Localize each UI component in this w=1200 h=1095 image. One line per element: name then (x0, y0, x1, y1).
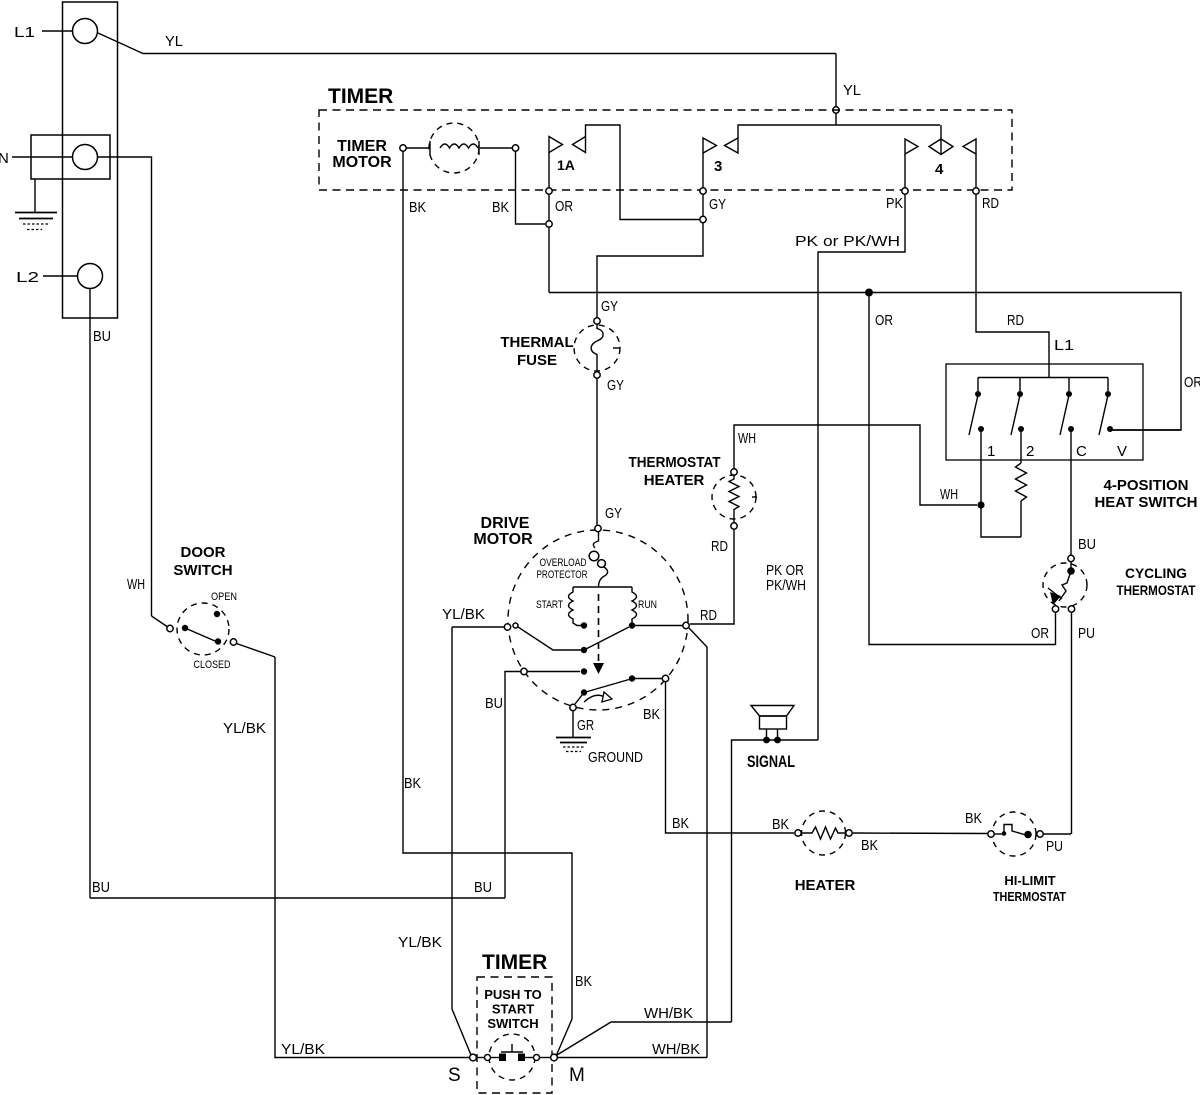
svg-text:OR: OR (875, 312, 893, 329)
terminal L2 (16, 264, 103, 289)
svg-text:OPEN: OPEN (211, 591, 237, 603)
terminal L1 (14, 19, 98, 44)
svg-text:YL/BK: YL/BK (398, 934, 442, 951)
node WH junction on wire 1 (977, 501, 984, 508)
svg-text:PK or PK/WH: PK or PK/WH (795, 233, 900, 250)
wire WH/BK from M horizontal (558, 1041, 707, 1058)
label PK OR PK/WH (right of motor) (766, 562, 806, 594)
terminal block TB1 (63, 2, 118, 318)
svg-text:RD: RD (711, 538, 728, 555)
svg-text:GR: GR (577, 717, 594, 734)
hi-limit thermostat (988, 812, 1071, 904)
timer box (dashed) (319, 85, 1012, 190)
svg-text:HEATER: HEATER (644, 472, 705, 489)
wire WH from N to door switch (98, 157, 152, 616)
node YL at timer border (833, 107, 839, 113)
wire BU from L2 down (90, 289, 111, 899)
wire OR main horizontal to heat switch V (549, 293, 1200, 431)
wire YL/BK door switch to push-to-start S (223, 657, 469, 1058)
svg-text:THERMAL: THERMAL (500, 334, 573, 351)
svg-text:DRIVE: DRIVE (481, 515, 530, 532)
svg-text:BU: BU (93, 328, 111, 345)
svg-text:S: S (448, 1065, 461, 1086)
node OR at timer border (546, 188, 552, 194)
svg-text:BK: BK (772, 816, 789, 833)
svg-text:BK: BK (861, 837, 878, 854)
node PK at timer border (902, 188, 908, 194)
svg-text:WH: WH (738, 430, 756, 447)
svg-text:V: V (1117, 443, 1127, 460)
svg-text:OR: OR (1184, 374, 1200, 391)
svg-text:YL/BK: YL/BK (223, 720, 266, 737)
svg-text:THERMOSTAT: THERMOSTAT (629, 454, 721, 471)
svg-text:WH: WH (127, 576, 145, 593)
svg-text:GROUND: GROUND (588, 749, 643, 766)
drive motor M1 (473, 515, 688, 710)
svg-text:HI-LIMIT: HI-LIMIT (1004, 873, 1055, 888)
svg-text:L1: L1 (14, 24, 35, 41)
wire BK heater to hi-limit (853, 810, 988, 834)
heat switch contact V (1099, 378, 1127, 461)
ground (motor) (556, 711, 643, 766)
motor winding bus bar (573, 586, 632, 588)
cycling thermostat (1043, 555, 1196, 612)
svg-text:TIMER: TIMER (328, 85, 393, 108)
wire PK from contact 4 down to signal (795, 154, 905, 740)
svg-text:WH: WH (940, 486, 958, 503)
wire GY from fuse to drive motor (597, 379, 622, 526)
svg-text:START: START (536, 599, 563, 611)
push-to-start switch (448, 1034, 585, 1086)
svg-text:1A: 1A (557, 157, 575, 173)
svg-text:PK: PK (886, 195, 903, 212)
svg-text:SWITCH: SWITCH (173, 562, 232, 579)
svg-text:WH/BK: WH/BK (644, 1005, 693, 1022)
svg-text:BK: BK (965, 810, 982, 827)
svg-text:CLOSED: CLOSED (194, 659, 231, 671)
svg-text:RD: RD (982, 195, 999, 212)
svg-text:THERMOSTAT: THERMOSTAT (1117, 582, 1196, 598)
node GY at motor top (595, 525, 601, 531)
svg-text:BK: BK (409, 199, 426, 216)
wire BU from motor (485, 668, 587, 898)
svg-text:PUSH TO: PUSH TO (484, 987, 542, 1002)
contact 1A (549, 137, 586, 174)
node RD at timer border (973, 188, 979, 194)
svg-text:L2: L2 (16, 269, 39, 286)
svg-text:WH/BK: WH/BK (652, 1041, 700, 1058)
svg-text:PU: PU (1046, 838, 1063, 855)
svg-text:SWITCH: SWITCH (487, 1016, 538, 1031)
signal buzzer (747, 706, 795, 772)
svg-text:SIGNAL: SIGNAL (747, 752, 795, 771)
svg-text:YL/BK: YL/BK (281, 1041, 325, 1058)
svg-text:C: C (1076, 443, 1087, 460)
contact 4 (905, 125, 976, 178)
wire heat switch 1 down (981, 429, 1021, 537)
svg-text:OR: OR (555, 198, 573, 215)
svg-text:BU: BU (92, 879, 110, 896)
heat switch contact C (1060, 378, 1087, 461)
wire WH from thermostat heater to heat switch (734, 425, 977, 505)
svg-text:RD: RD (1007, 312, 1024, 329)
timer (push-to-start) box (477, 951, 552, 1093)
svg-text:HEATER: HEATER (795, 877, 856, 894)
svg-text:GY: GY (607, 377, 624, 394)
svg-text:GY: GY (601, 298, 618, 315)
run winding (632, 587, 657, 626)
svg-text:PROTECTOR: PROTECTOR (537, 569, 588, 581)
wire OR from contact 1A down (549, 153, 573, 293)
svg-text:MOTOR: MOTOR (473, 531, 533, 548)
svg-text:BU: BU (485, 695, 503, 712)
wire RD from contact 4 to heat switch L1 (976, 154, 1074, 377)
terminal N (0, 135, 110, 179)
wire GR to ground (570, 695, 594, 734)
svg-text:3: 3 (714, 158, 722, 175)
thermal fuse F1 (500, 318, 624, 394)
svg-text:4-POSITION: 4-POSITION (1103, 477, 1188, 494)
centrifugal switch blade (lower) (581, 675, 669, 695)
svg-text:BU: BU (1078, 536, 1096, 553)
wire RD thermostat heater to motor RUN (690, 530, 734, 625)
wire YL/BK motor to push-to-start S (398, 627, 471, 1055)
svg-text:RUN: RUN (638, 599, 657, 611)
overload protector (537, 532, 608, 587)
node GY at timer border (700, 188, 706, 194)
svg-text:PU: PU (1078, 625, 1095, 642)
wire RD run winding to heater thermostat (635, 622, 689, 628)
node OR junction dot (865, 289, 873, 297)
wire OR from junction to cycling thermostat (869, 293, 1056, 645)
svg-text:CYCLING: CYCLING (1125, 565, 1187, 581)
svg-text:BU: BU (474, 879, 492, 896)
svg-text:OVERLOAD: OVERLOAD (540, 557, 587, 569)
svg-text:GY: GY (709, 196, 726, 213)
node start winding bottom (581, 622, 587, 628)
svg-text:BK: BK (672, 815, 689, 832)
svg-text:TIMER: TIMER (337, 138, 387, 155)
thermostat heater (629, 430, 758, 555)
4-position heat switch box (946, 364, 1198, 511)
heat switch contact 1 (969, 378, 995, 461)
wire PU cycling thermostat to hi-limit (1072, 613, 1096, 835)
rotation arrow (584, 692, 612, 702)
heater R1 (772, 811, 878, 894)
wire BU heat switch C to cycling thermostat (1071, 429, 1096, 555)
wire WH/BK from M up (via diagonal) (557, 1005, 732, 1055)
svg-text:START: START (492, 1002, 534, 1017)
svg-text:2: 2 (1026, 443, 1034, 460)
svg-text:4: 4 (935, 161, 944, 178)
wire BK from centrifugal switch down (643, 682, 794, 833)
wire from contact 1A up-over-down to node GY (z-wire) (586, 125, 701, 220)
node GY z-wire junction (700, 216, 706, 222)
svg-text:BK: BK (404, 775, 421, 792)
svg-text:THERMOSTAT: THERMOSTAT (993, 889, 1066, 904)
wire BU bottom horizontal (90, 879, 505, 898)
heat switch contact 2 (1011, 378, 1034, 461)
start winding (536, 587, 582, 626)
wire YL from L1 to timer (98, 33, 861, 125)
svg-text:PK/WH: PK/WH (766, 577, 806, 594)
svg-text:MOTOR: MOTOR (332, 154, 392, 171)
wire YL/BK into motor (442, 606, 518, 630)
node run winding bottom (629, 622, 635, 628)
wire BK timer motor right to OR node (492, 152, 545, 225)
svg-text:RD: RD (700, 607, 717, 624)
svg-text:1: 1 (987, 443, 995, 460)
svg-text:BK: BK (492, 199, 509, 216)
node OR-BK junction (546, 221, 552, 227)
contact 3 (703, 138, 738, 175)
svg-text:YL: YL (843, 82, 861, 99)
wire WH/BK from motor centrifugal to push-to-start M (689, 628, 707, 1058)
svg-text:BK: BK (575, 973, 592, 990)
svg-text:HEAT SWITCH: HEAT SWITCH (1094, 494, 1197, 511)
svg-text:M: M (569, 1065, 585, 1086)
wire heat switch V lead (1110, 429, 1181, 431)
svg-text:N: N (0, 150, 9, 167)
ground (N terminal) (15, 179, 57, 230)
svg-text:YL: YL (165, 33, 183, 50)
wire timer internal top bus (738, 125, 940, 138)
wire GY from contact 3 down (597, 153, 726, 321)
svg-text:BK: BK (643, 706, 660, 723)
svg-text:L1: L1 (1054, 337, 1074, 354)
timer motor TM (332, 123, 518, 173)
dashed arrow (motor shaft) (593, 594, 604, 674)
svg-text:FUSE: FUSE (517, 352, 557, 369)
svg-text:GY: GY (605, 505, 622, 522)
door switch S2 (152, 544, 276, 671)
svg-text:YL/BK: YL/BK (442, 606, 485, 623)
wire signal leads (732, 740, 819, 1022)
centrifugal switch blade (start) (518, 627, 629, 653)
svg-text:DOOR: DOOR (181, 544, 226, 561)
resistor on heat switch wire 2 (1016, 429, 1027, 537)
wire BK timer motor left, long left vertical (403, 152, 592, 1056)
svg-text:TIMER: TIMER (482, 951, 547, 974)
svg-text:OR: OR (1031, 625, 1049, 642)
